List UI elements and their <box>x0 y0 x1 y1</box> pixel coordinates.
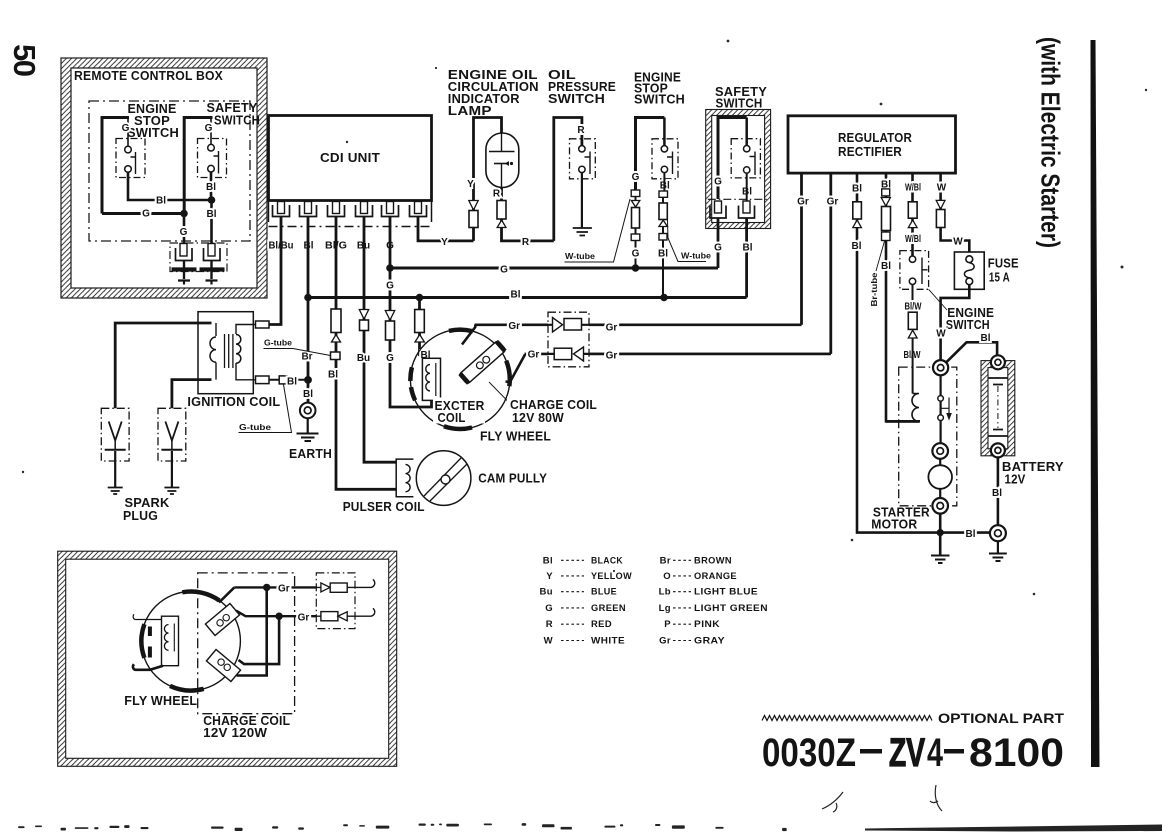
Gr2 wire through box <box>548 353 831 355</box>
starter ring 3 <box>932 498 948 514</box>
connector Bl (remote) <box>204 244 221 261</box>
svg-text:Bl: Bl <box>881 261 891 272</box>
svg-text:LAMP: LAMP <box>448 104 492 118</box>
wire Bl engine stop (remote) <box>128 172 212 200</box>
CDI pin 5 <box>382 202 399 217</box>
small connector on coil ground wire <box>279 376 287 384</box>
wire vertical 2 to winding B (optional) <box>239 616 280 664</box>
wire Gr regulator pin1 <box>800 173 803 325</box>
svg-text:GREEN: GREEN <box>591 603 626 614</box>
wire Bu pin4 down <box>364 217 396 463</box>
wire G connector tail <box>183 261 185 280</box>
ground (earth) <box>297 434 319 442</box>
diode row 1 (optional) <box>316 579 374 587</box>
svg-text:GRAY: GRAY <box>694 636 725 647</box>
wire vertical 1 to winding B (optional) <box>237 587 267 675</box>
svg-text:(with Electric Starter): (with Electric Starter) <box>1036 37 1066 248</box>
battery body hatched <box>981 361 1015 456</box>
svg-text:G: G <box>122 123 130 134</box>
connector on Bl/W <box>908 312 917 338</box>
CDI pin 3 <box>328 202 345 217</box>
stray pen mark 1 <box>822 792 843 812</box>
remote control box hatched frame <box>61 58 267 298</box>
svg-text:LIGHT GREEN: LIGHT GREEN <box>694 603 768 614</box>
svg-text:RED: RED <box>591 619 612 630</box>
wire Bl regulator pin3 down to battery ground run <box>857 173 990 533</box>
svg-text:Bl: Bl <box>658 249 668 260</box>
svg-text:SWITCH: SWITCH <box>946 318 990 332</box>
wire to ground from oil pressure switch <box>581 173 583 228</box>
svg-text:G: G <box>205 123 213 134</box>
safety switch hatched frame <box>706 110 771 229</box>
safety switch title (remote) <box>207 101 261 128</box>
oil pressure switch title <box>548 68 616 106</box>
wire winding A lower end to Gr2 (optional) <box>236 611 321 617</box>
wire Bl connector tail <box>210 261 212 280</box>
wire G engine stop (remote) <box>127 117 129 147</box>
diode connector dash-dot box (optional) <box>316 573 355 629</box>
svg-text:Bu: Bu <box>357 353 370 364</box>
svg-text:R: R <box>577 125 585 136</box>
ground (battery) <box>989 554 1007 562</box>
battery terminal ring (+) <box>991 355 1005 369</box>
svg-text:REGULATOR: REGULATOR <box>838 131 912 145</box>
svg-text:Bl/W: Bl/W <box>905 302 922 313</box>
wire winding A to Gr1 (optional) <box>219 587 234 602</box>
lead top (optional flywheel) <box>133 614 161 619</box>
svg-text:Bl: Bl <box>852 184 862 195</box>
remote inner dash-dot enclosure <box>89 101 250 241</box>
svg-text:PULSER COIL: PULSER COIL <box>343 500 425 514</box>
svg-text:W/Bl: W/Bl <box>905 234 921 245</box>
svg-text:O: O <box>663 571 671 582</box>
svg-text:Gr: Gr <box>827 197 839 208</box>
safety switch (main) <box>731 139 760 178</box>
svg-text:Bl: Bl <box>207 209 217 220</box>
node Bl bus at pin2 <box>304 294 312 302</box>
svg-text:50: 50 <box>7 44 42 77</box>
CDI unit box <box>269 116 432 201</box>
engine oil circulation indicator lamp title <box>448 68 539 118</box>
svg-text:IGNITION COIL: IGNITION COIL <box>187 395 280 409</box>
fuse box <box>954 252 984 289</box>
connector on pin6 <box>936 200 945 227</box>
svg-text:Y: Y <box>467 179 474 190</box>
diode row 2 (optional) <box>316 608 374 616</box>
svg-text:G: G <box>714 177 722 188</box>
connector on exciter Bl wire <box>415 310 425 343</box>
svg-text:G: G <box>386 353 394 364</box>
connector on pin3 wire <box>331 309 341 342</box>
wire relay coil to Bl <box>886 420 919 423</box>
starter terminal ring (top) <box>933 360 948 375</box>
svg-text:SWITCH: SWITCH <box>716 97 763 111</box>
svg-text:Lb: Lb <box>659 587 671 598</box>
svg-text:PINK: PINK <box>694 619 720 630</box>
diode connector dash-dot box <box>548 312 589 367</box>
engine switch label with leader <box>929 289 947 310</box>
wire Gr regulator pin2 <box>829 173 832 354</box>
connector on lamp R wire <box>497 201 506 228</box>
svg-text:Bl: Bl <box>743 243 753 254</box>
svg-text:G-tube: G-tube <box>264 338 292 348</box>
spark plug 2 wire and ground <box>171 451 173 487</box>
svg-text:G: G <box>386 281 394 292</box>
engine stop switch (main) <box>652 139 678 179</box>
svg-text:Bl: Bl <box>511 290 521 301</box>
node Bl bus at engine stop <box>660 294 668 302</box>
node earth junction <box>304 376 312 384</box>
wire G horizontal run (remote) <box>102 212 184 215</box>
spark plug 1 <box>101 408 129 461</box>
wire G bus horizontal <box>389 267 718 270</box>
diode row 2 <box>554 348 572 359</box>
svg-text:R: R <box>493 189 501 200</box>
svg-text:Gr: Gr <box>659 636 671 647</box>
wire Y pin6 across <box>418 217 474 241</box>
fuse element <box>964 263 974 278</box>
svg-text:Bl: Bl <box>156 196 166 207</box>
cam pulley <box>416 451 471 506</box>
svg-text:Gr: Gr <box>278 583 290 594</box>
wire Bl drop (engine stop) <box>663 173 664 298</box>
starter motor body <box>928 465 952 489</box>
svg-text:Bl: Bl <box>287 377 297 388</box>
svg-text:G: G <box>632 172 640 183</box>
svg-text:12V 120W: 12V 120W <box>203 726 267 740</box>
wire G safety to bus <box>717 218 720 268</box>
wire ring to ground <box>997 541 999 552</box>
svg-text:COIL: COIL <box>438 411 466 425</box>
svg-text:Bl: Bl <box>992 488 1002 499</box>
connector on pin4 wire <box>359 310 368 331</box>
regulator rectifier label <box>838 131 912 159</box>
flywheel magnet arc 3 <box>444 426 472 429</box>
HT lead to spark plug 1 <box>115 323 211 408</box>
flywheel magnet arc 4 <box>506 361 510 387</box>
svg-text:CHARGE COIL: CHARGE COIL <box>510 398 597 412</box>
svg-text:W-tube: W-tube <box>565 251 595 261</box>
connector on pin5 <box>908 202 917 228</box>
svg-text:YELLOW: YELLOW <box>591 571 632 582</box>
svg-text:Gr: Gr <box>797 197 809 208</box>
node Gr2 (optional) <box>275 613 282 620</box>
charge coil winding B (optional) <box>206 649 240 681</box>
safety switch (remote) <box>198 139 227 178</box>
svg-text:12V: 12V <box>1005 473 1026 487</box>
svg-text:BROWN: BROWN <box>694 555 732 566</box>
node Bl bus mid <box>416 294 424 302</box>
wire Bl battery negative <box>997 457 1000 525</box>
svg-text:Gr: Gr <box>528 349 540 360</box>
svg-text:Y: Y <box>546 571 553 582</box>
connector G (safety) <box>710 201 726 218</box>
wire G to connector <box>183 214 186 244</box>
wire Bl safety to bus <box>745 218 748 298</box>
svg-text:MOTOR: MOTOR <box>871 518 917 532</box>
svg-text:OPTIONAL PART: OPTIONAL PART <box>938 710 1064 726</box>
pulser coil frame <box>396 459 413 497</box>
svg-text:Gr: Gr <box>298 612 310 623</box>
svg-text:G: G <box>545 603 553 614</box>
wire Bl/Bu pin1 to ignition coil <box>269 217 281 325</box>
svg-text:SWITCH: SWITCH <box>634 93 685 107</box>
charge coil winding A (optional) <box>205 603 239 635</box>
wire Bl to connector <box>210 200 213 244</box>
Gr1 wire through box <box>548 324 802 326</box>
svg-text:8100: 8100 <box>969 731 1064 775</box>
wire G safety (remote) <box>210 117 212 145</box>
wire G pin5 down to exciter <box>390 217 432 408</box>
wire G chain stubs <box>635 197 637 269</box>
wire relay main path <box>939 375 941 443</box>
coil winding connections <box>216 323 256 380</box>
svg-text:SWITCH: SWITCH <box>548 92 605 106</box>
wire Bl/W down to coil <box>912 338 914 394</box>
svg-text:G: G <box>180 227 188 238</box>
svg-text:Bl: Bl <box>852 241 862 252</box>
svg-text:Bl: Bl <box>543 555 553 566</box>
zigzag line before OPTIONAL PART <box>762 716 932 721</box>
ignition coil terminal (top) <box>256 321 270 328</box>
wire Bl/G pin3 down <box>336 217 396 490</box>
magnet bars beside coil <box>148 627 152 637</box>
wire Y riser to lamp <box>474 118 502 241</box>
oil pressure switch <box>570 139 596 179</box>
ignition coil primary winding <box>210 337 216 362</box>
svg-text:Br-tube: Br-tube <box>869 272 879 306</box>
charge coil dash-dot box (optional) <box>198 573 295 714</box>
ignition coil secondary winding <box>236 335 241 364</box>
wire Bl safety to connector <box>746 173 748 200</box>
flywheel magnet arc top (optional) <box>182 592 219 601</box>
svg-text:Bl: Bl <box>966 529 976 540</box>
exciter coil <box>422 358 440 400</box>
svg-text:FLY WHEEL: FLY WHEEL <box>124 694 197 708</box>
svg-text:RECTIFIER: RECTIFIER <box>838 145 902 159</box>
svg-text:G: G <box>142 209 150 220</box>
node Bl junction (remote) <box>208 196 216 204</box>
svg-text:Bl: Bl <box>206 182 216 193</box>
svg-text:Lg: Lg <box>659 603 671 614</box>
flywheel magnet arc left (optional) <box>141 624 144 658</box>
svg-text:W/Bl: W/Bl <box>905 182 921 193</box>
spark plug 2 <box>158 408 186 461</box>
scan specks <box>22 40 1147 596</box>
svg-text:Gr: Gr <box>606 350 618 361</box>
ground ring terminal <box>990 525 1006 541</box>
svg-text:Bl: Bl <box>303 389 313 400</box>
relay contacts <box>938 396 944 402</box>
node at Bl crossing <box>937 529 944 536</box>
node G bus at pin5 <box>386 264 394 272</box>
HT lead to spark plug 2 <box>172 380 212 409</box>
exciter coil (optional flywheel) <box>162 616 179 666</box>
wire Gr2 horizontal <box>525 353 831 356</box>
optional box hatched frame <box>58 551 397 766</box>
wire Bl safety (remote) <box>210 172 213 200</box>
ground (starter motor) <box>931 556 950 564</box>
ignition coil core <box>225 334 233 368</box>
wire charge coil to Gr2 <box>506 355 526 383</box>
svg-text:P: P <box>664 619 671 630</box>
connector chain G (engine stop) <box>631 190 640 241</box>
safety switch title <box>715 85 767 111</box>
diode row 1 <box>553 318 563 333</box>
lead bottom (optional flywheel) <box>133 664 163 670</box>
battery terminal ring (-) <box>991 443 1005 457</box>
CDI pin 1 <box>273 202 290 217</box>
starter relay dash-dot box <box>899 367 957 506</box>
svg-text:REMOTE CONTROL BOX: REMOTE CONTROL BOX <box>74 69 223 83</box>
svg-text:G-tube: G-tube <box>239 422 271 432</box>
wire starter to ground <box>939 514 942 555</box>
scan noise strip at bottom <box>18 823 1162 831</box>
white backing for exciter label <box>433 398 485 424</box>
relay coil <box>912 394 919 422</box>
wire W fuse to starter relay terminal <box>941 285 970 360</box>
connector chain Bl (engine stop) <box>659 191 668 240</box>
leader line charge coil to label <box>489 382 511 405</box>
flywheel magnet arc 1 <box>449 330 473 332</box>
wire Bl bus horizontal <box>308 296 747 299</box>
charge coil (tilted, in flywheel) <box>458 340 506 385</box>
right vertical rule <box>1091 40 1100 767</box>
fuse terminals <box>966 256 973 263</box>
svg-text:R: R <box>546 619 553 630</box>
svg-text:W-tube: W-tube <box>681 251 711 261</box>
wire Bl pin2 down to earth <box>307 217 310 403</box>
connector on Y riser <box>469 201 478 228</box>
CDI pin 2 <box>300 202 317 217</box>
svg-text:EARTH: EARTH <box>289 447 332 461</box>
svg-text:Br: Br <box>301 352 312 363</box>
svg-text:Bl: Bl <box>328 370 338 381</box>
wire G/Bl tops of engine stop switch <box>663 118 666 146</box>
wire W regulator pin6 to fuse <box>941 173 970 256</box>
svg-text:ZV: ZV <box>889 731 925 775</box>
connector on pin5 wire <box>385 311 394 341</box>
connector on pin3 Bl <box>853 202 862 228</box>
wire W/Bl regulator pin5 to engine switch <box>911 173 914 256</box>
svg-text:Gr: Gr <box>508 321 520 332</box>
node G bus at engine stop <box>632 264 640 272</box>
relay lever arrow <box>942 398 950 414</box>
engine stop switch title <box>634 71 685 107</box>
engine stop switch (remote) <box>116 139 145 178</box>
spark plug 1 wire and ground <box>114 451 116 487</box>
wire Bl from bus to exciter coil <box>420 298 427 359</box>
node G junction (remote) <box>180 210 188 218</box>
svg-text:LIGHT BLUE: LIGHT BLUE <box>694 587 758 598</box>
svg-text:Bu: Bu <box>540 587 553 598</box>
svg-text:W: W <box>953 237 963 248</box>
svg-text:BLUE: BLUE <box>591 587 617 598</box>
lamp internals <box>489 133 515 188</box>
wire earth ring to ground <box>307 418 309 433</box>
indicator lamp body <box>486 133 519 188</box>
svg-text:FUSE: FUSE <box>988 257 1019 271</box>
svg-text:SPARK: SPARK <box>125 496 170 510</box>
ignition coil terminal (bottom) <box>256 376 270 384</box>
svg-text:WHITE: WHITE <box>591 636 625 647</box>
svg-text:R: R <box>522 237 530 248</box>
wire coil bottom to small connector <box>269 379 308 381</box>
svg-text:SWITCH: SWITCH <box>214 114 260 128</box>
node Gr1 (optional) <box>263 584 270 591</box>
wire R riser to oil pressure switch <box>554 118 582 241</box>
svg-text:W: W <box>544 636 553 647</box>
stray pen mark 2 <box>930 785 942 811</box>
svg-text:15 A: 15 A <box>989 271 1010 285</box>
connector Bl (safety) <box>739 201 755 218</box>
ignition coil outline <box>198 312 253 394</box>
svg-text:Bl: Bl <box>981 333 991 344</box>
CDI dash-dot bottom line <box>269 226 432 228</box>
svg-text:CAM PULLY: CAM PULLY <box>478 472 547 486</box>
connector dash-dot box (remote bottom) <box>170 243 227 272</box>
wire Gr1 horizontal <box>475 323 802 326</box>
wire charge coil to Gr1 <box>462 325 475 345</box>
engine stop switch title <box>127 102 179 140</box>
svg-text:W: W <box>936 329 946 340</box>
wire Gr1 line (optional) <box>234 586 321 588</box>
flywheel rim <box>410 330 509 429</box>
svg-text:G: G <box>500 265 508 276</box>
G-tube marker on pin3 wire <box>331 352 341 360</box>
svg-text:Gr: Gr <box>606 322 618 333</box>
svg-text:0030Z: 0030Z <box>762 731 856 775</box>
CDI pin 6 <box>410 202 427 217</box>
svg-text:G: G <box>632 249 640 260</box>
wire R from lamp <box>502 188 554 241</box>
white backing for charge coil label <box>507 397 599 425</box>
connector G (remote) <box>176 244 193 261</box>
svg-text:Br: Br <box>660 555 671 566</box>
svg-text:ORANGE: ORANGE <box>694 571 737 582</box>
svg-text:BLACK: BLACK <box>591 555 623 566</box>
svg-text:CDI UNIT: CDI UNIT <box>320 151 380 165</box>
svg-text:W: W <box>937 182 947 193</box>
svg-text:12V 80W: 12V 80W <box>512 411 564 425</box>
battery cells <box>989 378 1008 436</box>
svg-text:4: 4 <box>927 731 944 775</box>
wire Bl jumper ring to battery <box>946 342 997 362</box>
svg-text:PLUG: PLUG <box>123 509 158 523</box>
flywheel magnet arc bottom (optional) <box>170 686 204 691</box>
CDI pin 4 <box>356 202 373 217</box>
connector chain on pin4 Bl <box>881 189 890 241</box>
pulser coil winding <box>406 465 411 492</box>
svg-text:FLY WHEEL: FLY WHEEL <box>480 430 551 444</box>
flywheel rim (optional) <box>141 592 240 691</box>
engine switch <box>900 251 929 290</box>
earth ring terminal <box>300 403 316 419</box>
wire Bl regulator pin4 to starter relay <box>886 173 920 421</box>
flywheel magnet arc 2 <box>410 367 415 400</box>
regulator rectifier box <box>788 116 956 173</box>
starter ring 2 <box>932 443 948 459</box>
svg-text:Y: Y <box>441 237 448 248</box>
svg-text:G: G <box>714 243 722 254</box>
ground (oil pressure switch) <box>573 228 592 236</box>
dash-dot connector line (safety) <box>708 198 769 200</box>
CDI lower skirt sides <box>269 201 432 223</box>
wire Bl/W engine switch to relay coil <box>912 285 914 313</box>
wire G/Bl tops of safety switch <box>718 118 747 200</box>
